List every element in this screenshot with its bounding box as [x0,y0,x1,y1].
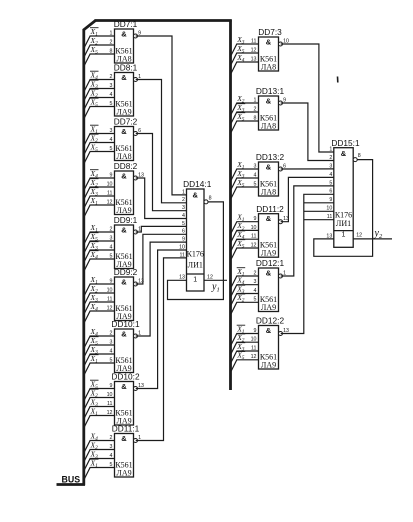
input label X4 [236,276,245,287]
wire DD11:1 out to DD14:1 pin 11 [136,258,187,441]
wire DD10:1 out to DD14:1 pin 9 [136,242,187,336]
wire X4 to DD7:3 pin 13 [231,62,259,75]
bus: top-left diagonal corner [83,21,95,31]
svg-text:К176: К176 [335,210,352,219]
bus: left vertical rail [82,30,85,486]
bus: top horizontal rail [95,19,232,22]
svg-text:ЛА9: ЛА9 [116,108,131,117]
input label X1 [236,160,245,171]
input label X1 [90,223,99,234]
wire X1 to DD10:2 pin 12 [84,416,115,429]
wire tie DD15:1 pin 11 [304,219,334,221]
input label X1 [90,27,99,38]
input label X1 [90,196,99,207]
wire /X1 to DD12:2 pin 9 [231,334,259,347]
input label X2 [90,36,99,47]
wire /X3 to DD9:1 pin 4 [84,250,115,263]
svg-text:&: & [121,278,127,287]
input label X3 [90,449,99,460]
NAND gate DD7:1 (К561 ЛА8) [110,19,142,63]
svg-text:DD13:2: DD13:2 [256,152,285,162]
input label X4 [236,53,245,64]
input label X5 [90,45,99,56]
wire X3 to DD11:1 pin 4 [84,459,115,472]
wire /X3 to DD8:1 pin 3 [84,89,115,102]
wire X1 to DD8:2 pin 12 [84,205,115,218]
svg-text:ЛА9: ЛА9 [261,249,276,258]
input label X2 [90,133,99,144]
svg-text:DD7:2: DD7:2 [114,117,138,127]
input label X1 [90,354,99,365]
input label X5 [236,178,245,189]
input label X3 [90,79,99,90]
NAND gate DD12:1 (К561 ЛА9) [254,258,287,312]
wire X4 to DD9:2 pin 12 [84,311,115,324]
wire /X1 to DD7:1 pin 1 [84,36,115,49]
input label X4 [90,302,99,313]
input label X5 [90,232,99,243]
wire X4 to DD12:1 pin 3 [231,285,259,298]
wire /X4 to DD8:2 pin 9 [84,178,115,191]
wire X3 to DD10:2 pin 11 [84,407,115,420]
bus: right vertical rail [229,20,232,391]
wire X2 to DD11:1 pin 3 [84,450,115,463]
wire X2 to DD11:2 pin 10 [231,230,259,243]
input label X3 [236,103,245,114]
wire /X3 to DD8:2 pin 11 [84,196,115,209]
svg-text:&: & [121,172,127,181]
input label X2 [236,293,245,304]
svg-text:DD13:1: DD13:1 [256,86,285,96]
svg-text:DD10:1: DD10:1 [111,319,140,329]
svg-text:&: & [121,434,127,443]
input label X3 [236,342,245,353]
svg-text:ЛА8: ЛА8 [261,122,276,131]
input label X3 [236,35,245,46]
svg-text:&: & [266,326,272,335]
svg-text:&: & [266,214,272,223]
input label X3 [236,284,245,295]
wire X4 to DD11:1 pin 2 [84,441,115,454]
input label X2 [90,284,99,295]
input label X2 [236,221,245,232]
svg-text:ЛА9: ЛА9 [261,303,276,312]
wire /X2 to DD12:1 pin 5 [231,302,259,315]
wire X1 to DD9:1 pin 2 [84,232,115,245]
svg-text:DD11:1: DD11:1 [112,424,140,434]
wire X5 to DD7:3 pin 12 [231,53,259,66]
wire /X2 to DD7:2 pin 4 [84,143,115,156]
svg-text:DD7:1: DD7:1 [114,19,138,29]
wire DD8:1 out to DD14:1 pin 2 [136,80,187,203]
svg-text:ЛИ1: ЛИ1 [188,261,203,270]
wire X1 to DD11:2 pin 9 [231,222,259,235]
input label X5 [90,97,99,108]
NAND gate DD10:2 (К561 ЛА9) [107,372,144,426]
input label X1 [236,324,245,335]
wire DD13:2 out to DD15:1 pin 3 [281,168,334,170]
input label X3 [90,345,99,356]
input label X5 [236,44,245,55]
input label X1 [236,213,245,224]
bus: bottom-left terminal line [57,483,86,486]
AND gate U DD14:1 (К176 ЛИ1) [179,179,213,291]
input label X3 [90,241,99,252]
svg-text:DD15:1: DD15:1 [331,138,360,148]
input label X2 [90,440,99,451]
wire /X3 to DD12:2 pin 11 [231,351,259,364]
wire /X4 to DD11:2 pin 11 [231,239,259,252]
input label X4 [90,250,99,261]
wire DD7:1 out to DD14:1 pin 1 [136,36,187,195]
svg-text:&: & [266,269,272,278]
svg-text:&: & [121,226,127,235]
svg-text:BUS: BUS [62,474,81,484]
wire /X1 to DD10:1 pin 5 [84,363,115,376]
wire DD10:2 out to DD14:1 pin 10 [136,250,187,389]
svg-text:DD8:1: DD8:1 [114,63,138,73]
input label X3 [90,187,99,198]
wire /X2 to DD8:1 pin 4 [84,98,115,111]
wire DD7:3 out to DD15:1 pin 1 [281,44,334,152]
svg-text:ЛА8: ЛА8 [261,63,276,72]
input label X2 [90,388,99,399]
wire /X5 to DD13:1 pin 8 [231,121,259,134]
NAND gate DD10:1 (К561 ЛА9) [110,319,142,373]
NAND gate DD12:2 (К561 ЛА9) [251,316,289,370]
wire /X5 to DD8:1 pin 5 [84,107,115,120]
svg-text:12: 12 [356,233,362,239]
svg-text:ЛА9: ЛА9 [261,361,276,370]
wire DD9:2 out to DD14:1 pin 6 [136,234,187,284]
wire DD12:2 out to DD15:1 pin 6 [281,194,334,333]
wire DD14:1 pin 12 output y1 [204,279,227,281]
AND gate U DD15:1 (К176 ЛИ1) [326,138,362,247]
svg-text:ЛА9: ЛА9 [116,206,131,215]
svg-text:&: & [121,382,127,391]
wire X2 to DD13:1 pin 1 [231,103,259,116]
wire X5 to DD7:1 pin 8 [84,54,115,67]
NAND gate DD7:3 (К561 ЛА8) [251,27,289,71]
svg-text:&: & [121,73,127,82]
stray tick mark [337,77,339,83]
wire X5 to DD7:2 pin 5 [84,152,115,165]
svg-text:DD9:1: DD9:1 [114,215,138,225]
input label X3 [90,397,99,408]
wire X5 to DD13:2 pin 5 [231,187,259,200]
input label X5 [236,112,245,123]
svg-text:DD7:3: DD7:3 [258,27,282,37]
input label X3 [90,293,99,304]
wire DD11:2 out to DD15:1 pin 4 [281,177,334,221]
input label X3 [236,169,245,180]
input label X2 [90,178,99,189]
wire /X2 to DD10:2 pin 10 [84,398,115,411]
NAND gate DD9:2 (К561 ЛА9) [107,267,144,321]
NAND gate DD11:1 (К561 ЛА9) [110,424,142,478]
svg-text:&: & [193,191,199,200]
wire /X4 to DD9:1 pin 5 [84,259,115,272]
wire X3 to DD10:1 pin 4 [84,354,115,367]
svg-text:DD8:2: DD8:2 [114,161,138,171]
svg-text:8: 8 [209,195,212,201]
svg-text:DD9:2: DD9:2 [114,267,138,277]
input label X4 [90,327,99,338]
wire /X1 to DD7:2 pin 3 [84,134,115,147]
NAND gate DD9:1 (К561 ЛА9) [110,215,142,269]
NAND gate DD13:1 (К561 ЛА8) [254,86,287,130]
input label X4 [90,169,99,180]
wire /X1 to DD12:1 pin 2 [231,276,259,289]
svg-text:К176: К176 [187,250,204,259]
NAND gate DD7:2 (К561 ЛА8) [110,117,142,161]
svg-text:1: 1 [342,231,346,238]
wire /X5 to DD10:1 pin 3 [84,345,115,358]
input label X1 [90,124,99,135]
wire DD12:1 out to DD15:1 pin 5 [281,186,334,276]
svg-text:DD12:1: DD12:1 [256,258,285,268]
input label X5 [90,142,99,153]
wire DD9:1 out to DD14:1 pin 5 [136,226,187,232]
svg-text:&: & [121,127,127,136]
wire /X1 to DD11:1 pin 5 [84,468,115,481]
wire X1 to DD9:2 pin 9 [84,284,115,297]
wire /X5 to DD9:1 pin 3 [84,241,115,254]
input label X1 [90,406,99,417]
wire /X2 to DD12:2 pin 10 [231,342,259,355]
wire DD7:2 out to DD14:1 pin 3 [136,134,187,211]
input label X5 [236,351,245,362]
input label X2 [236,94,245,105]
svg-text:&: & [266,38,272,47]
wire X4 to DD10:1 pin 2 [84,336,115,349]
svg-text:&: & [121,330,127,339]
NAND gate DD11:2 (К561 ЛА9) [251,204,289,258]
wire DD14:1 pin 8 feedback to pin 13 [168,202,224,300]
wire /X5 to DD12:2 pin 12 [231,360,259,373]
wire DD8:2 out to DD14:1 pin 4 [136,178,187,219]
input label X2 [90,88,99,99]
svg-text:1: 1 [193,276,197,283]
wire tie DD15:1 pin 10 [304,210,334,212]
svg-text:ЛА8: ЛА8 [116,152,131,161]
wire DD15:1 pin 8 feedback to pin 13 [314,160,373,257]
input label X4 [90,70,99,81]
svg-text:12: 12 [207,275,213,281]
input label X5 [90,336,99,347]
input label X2 [236,333,245,344]
NAND gate DD8:2 (К561 ЛА9) [107,161,144,215]
svg-text:ЛА9: ЛА9 [116,469,131,478]
wire X3 to DD7:3 pin 11 [231,44,259,57]
svg-text:DD10:2: DD10:2 [111,372,140,382]
input label X4 [90,431,99,442]
wire X2 to DD7:1 pin 2 [84,45,115,58]
svg-text:&: & [341,149,347,158]
wire tie DD15:1 pin 9 [304,202,334,204]
wire /X3 to DD12:1 pin 4 [231,294,259,307]
svg-text:&: & [121,30,127,39]
wire X3 to DD13:2 pin 4 [231,178,259,191]
wire DD15:1 pin 12 output y2 [353,238,392,240]
svg-text:ЛА8: ЛА8 [261,188,276,197]
svg-text:DD11:2: DD11:2 [256,204,284,214]
input label X5 [236,239,245,250]
wire DD13:1 out to DD15:1 pin 2 [281,103,334,161]
svg-text:DD12:2: DD12:2 [256,316,285,326]
svg-text:8: 8 [358,153,361,159]
wire /X5 to DD11:2 pin 12 [231,248,259,261]
svg-text:DD14:1: DD14:1 [183,179,212,189]
input label X1 [236,267,245,278]
wire X1 to DD13:2 pin 3 [231,169,259,182]
input label X1 [90,275,99,286]
svg-text:ЛИ1: ЛИ1 [336,219,351,228]
NAND gate DD8:1 (К561 ЛА9) [110,63,142,117]
svg-text:&: & [266,163,272,172]
input label X5 [90,379,99,390]
wire X3 to DD9:2 pin 11 [84,302,115,315]
wire /X5 to DD10:2 pin 9 [84,389,115,402]
svg-text:&: & [266,97,272,106]
wire /X4 to DD8:1 pin 2 [84,80,115,93]
input label X4 [236,230,245,241]
input label X1 [90,458,99,469]
wire /X3 to DD13:1 pin 2 [231,112,259,125]
wire X2 to DD9:2 pin 10 [84,293,115,306]
NAND gate DD13:2 (К561 ЛА8) [254,152,287,196]
wire /X2 to DD8:2 pin 10 [84,187,115,200]
